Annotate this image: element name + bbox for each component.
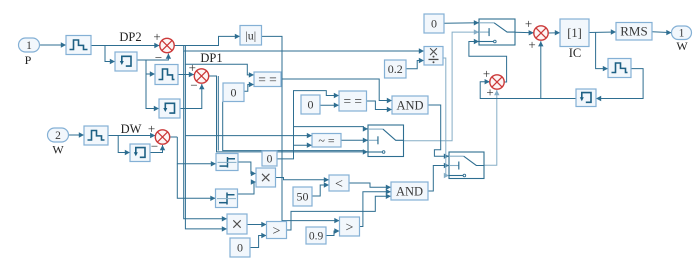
- switch SW2: [449, 152, 484, 179]
- wire IC out to RMS: [589, 29, 616, 34]
- svg-text:2: 2: [55, 130, 61, 142]
- wire zero Z2 branch down along switch SW3 feed: [223, 102, 364, 151]
- svg-text:+: +: [189, 60, 196, 75]
- constant 50: [293, 187, 312, 206]
- svg-text:+: +: [528, 37, 535, 52]
- pulse block S1: [66, 36, 91, 55]
- port W out: [672, 26, 692, 53]
- AND1 block: [392, 96, 428, 114]
- product divide block: [424, 47, 443, 66]
- wire in2 W to pulse S3: [69, 132, 85, 137]
- svg-text:|u|: |u|: [245, 28, 256, 42]
- equal block E1: [254, 72, 281, 87]
- svg-text:+: +: [525, 16, 532, 31]
- svg-text:DP2: DP2: [119, 30, 141, 44]
- wire product-divide out down to switch SW2 input 3: [443, 58, 449, 178]
- wire DP2 branch to product-divide X input: [184, 46, 424, 54]
- IC block [1]: [560, 19, 589, 47]
- wire branch down to memory M1: [105, 46, 115, 65]
- wire zero Z4 branch to switch SW3 input 1: [294, 126, 369, 131]
- wire DP1 out down to switch SW3 input 3: [209, 76, 368, 155]
- memory M4: [576, 89, 596, 107]
- svg-text:~ =: ~ =: [318, 133, 334, 147]
- svg-text:W: W: [52, 143, 64, 157]
- less block L1: [329, 175, 349, 192]
- wire const 50 to less L1 input 2: [312, 182, 329, 196]
- wire X1 out to less L1 input 1: [276, 177, 330, 182]
- svg-text:0: 0: [308, 98, 314, 112]
- wire AND2 out to switch SW2 input 2: [428, 163, 449, 191]
- wire branch up to sum A1 plus input: [538, 41, 543, 98]
- wire DP2 branch down to multiply X2 input 1: [184, 51, 227, 222]
- wire M3 out to sum DW minus input: [150, 145, 165, 153]
- svg-text:>: >: [273, 224, 281, 239]
- divide D1: [216, 154, 238, 171]
- svg-text:1: 1: [26, 40, 32, 52]
- abs block |u|: [240, 26, 262, 46]
- sum DP1: [189, 60, 209, 93]
- wire DW line to notequal input 1: [185, 133, 312, 138]
- wire notequal out to switch SW3 input 2: [341, 138, 368, 143]
- svg-text:AND: AND: [396, 184, 423, 198]
- svg-text:+: +: [486, 85, 493, 100]
- wire branch down to pulse S4: [596, 32, 608, 71]
- wire D1 out to multiply X1 input 1: [238, 162, 256, 176]
- svg-text:0.2: 0.2: [388, 62, 403, 76]
- notequal block: [312, 133, 341, 147]
- multiply X1: [256, 168, 276, 187]
- wire X2 out to greater G1 input 1: [247, 222, 267, 227]
- svg-text:W: W: [676, 39, 688, 53]
- svg-text:<: <: [335, 177, 343, 192]
- wire DP2 branch to equal E1 input 1: [185, 46, 254, 78]
- wire SW3 out up to switch SW1 input 2: [403, 29, 479, 140]
- wire M1 out to DP2 minus input: [137, 54, 171, 61]
- wire branch down to memory M2: [146, 74, 159, 111]
- svg-text:DW: DW: [121, 122, 142, 136]
- pulse block S4: [608, 59, 631, 78]
- svg-text:RMS: RMS: [620, 24, 647, 39]
- svg-text:0: 0: [237, 241, 243, 255]
- switch SW1: [479, 19, 515, 45]
- svg-text:0.9: 0.9: [309, 230, 324, 242]
- svg-text:P: P: [25, 53, 32, 67]
- constant 0.2: [385, 60, 407, 78]
- pulse block S3: [84, 126, 108, 145]
- constant zero Z4: [262, 151, 277, 166]
- wire DP2 branch down to multiply X2 input 2: [185, 64, 227, 231]
- wire S1 to sum DP2: [90, 43, 160, 48]
- wire SW1 out to sum A1: [515, 30, 534, 35]
- wire M4 out to sum A3 input: [480, 79, 576, 99]
- wire A3 out up to switch SW1 input 3: [469, 39, 507, 82]
- RMS block: [616, 23, 652, 41]
- wire S2 to sum DP1: [178, 72, 194, 77]
- svg-text:>: >: [346, 220, 354, 235]
- wire branch down to memory M3: [118, 136, 130, 156]
- AND2 block: [391, 182, 428, 200]
- pulse block S2: [155, 65, 178, 85]
- svg-text:0: 0: [267, 153, 273, 165]
- wire abs out down to greater G2 input 1: [262, 36, 340, 223]
- svg-text:= =: = =: [343, 94, 362, 109]
- memory M2: [159, 99, 180, 118]
- constant zero Z5: [230, 238, 250, 257]
- wire DP1 second branch down: [217, 76, 219, 151]
- wire DW out to vertical bus: [170, 136, 177, 138]
- sum DP2: [153, 29, 174, 65]
- svg-text:= =: = =: [258, 72, 277, 87]
- wire M2 out to DP1 minus input: [180, 84, 205, 109]
- wire zero Z1 to switch SW1 input 1: [444, 20, 479, 25]
- memory M3: [130, 144, 150, 162]
- wire S4 out around to memory M4: [596, 69, 643, 102]
- switch SW3: [368, 125, 404, 157]
- wire SW2 out up to sum A3 plus input: [484, 90, 500, 165]
- svg-text:0: 0: [231, 85, 237, 99]
- greater G2: [340, 217, 360, 236]
- wire zero Z3 to equal E2 input 2: [320, 103, 339, 108]
- svg-text:+: +: [483, 66, 490, 81]
- wire RMS out to out port W: [652, 30, 672, 35]
- wire DW branch to divide D1: [177, 137, 216, 167]
- wire const 0.2 to divide input: [406, 58, 424, 69]
- wire zero Z2 to equal E1 input 2: [244, 82, 254, 91]
- svg-text:IC: IC: [569, 46, 582, 60]
- svg-text:−: −: [155, 50, 162, 65]
- multiply X2: [227, 214, 247, 234]
- svg-text:1: 1: [679, 28, 685, 40]
- constant 0.9: [306, 227, 326, 244]
- port P: [19, 38, 40, 67]
- wire branch to pulse S2: [146, 60, 155, 77]
- svg-text:+: +: [148, 121, 155, 136]
- svg-text:−: −: [190, 78, 197, 93]
- svg-text:DP1: DP1: [200, 51, 222, 65]
- wire DW branch to divide D2: [177, 164, 215, 201]
- wire E2 out to AND1 input 2: [367, 101, 392, 112]
- svg-text:−: −: [151, 139, 158, 154]
- constant zero Z3: [301, 95, 320, 114]
- equal block E2: [339, 91, 367, 111]
- svg-text:+: +: [153, 29, 160, 44]
- constant zero Z2: [223, 83, 244, 102]
- sum A3: [483, 66, 504, 100]
- svg-text:50: 50: [297, 190, 309, 204]
- sum A1: [525, 16, 548, 52]
- wire zero Z4 branch to notequal input 2: [294, 143, 313, 148]
- sum DW: [148, 121, 170, 154]
- wire const 0.9 to greater G2 input 2: [326, 228, 340, 235]
- port W: [48, 128, 69, 157]
- wire DP2 out to abs |u|: [174, 34, 240, 46]
- wire A1 out to IC block: [548, 30, 560, 35]
- memory M1: [115, 52, 137, 71]
- wire L1 out to AND2 input 1: [349, 183, 391, 190]
- wire AND1 out to switch SW2 input 1: [428, 105, 449, 159]
- svg-text:AND: AND: [396, 98, 423, 112]
- svg-text:0: 0: [431, 17, 437, 31]
- divide D2: [216, 189, 238, 208]
- wire zero Z4 up to equal E2 input 1: [277, 91, 339, 159]
- wire E1 out to AND1 input 1: [281, 79, 392, 103]
- wire G2 out to AND2 input 2: [360, 189, 392, 227]
- wire S3 to sum DW: [108, 133, 155, 138]
- wire zero Z5 to greater G1 input 2: [250, 233, 267, 248]
- wire D2 out to multiply X1 input 2: [238, 179, 257, 194]
- wire in1 P to pulse S1: [40, 42, 67, 47]
- constant zero Z1: [424, 14, 444, 33]
- wire G1 out to AND2 input 3: [287, 194, 392, 230]
- svg-text:[1]: [1]: [567, 26, 582, 40]
- greater G1: [267, 222, 287, 239]
